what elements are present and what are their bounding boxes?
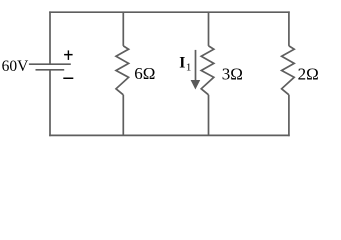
svg-text:6Ω: 6Ω [134, 64, 155, 83]
svg-text:I: I [179, 55, 185, 72]
svg-text:3Ω: 3Ω [222, 64, 243, 83]
svg-text:60V: 60V [2, 58, 30, 75]
svg-text:2Ω: 2Ω [298, 64, 319, 83]
svg-text:1: 1 [186, 61, 192, 73]
